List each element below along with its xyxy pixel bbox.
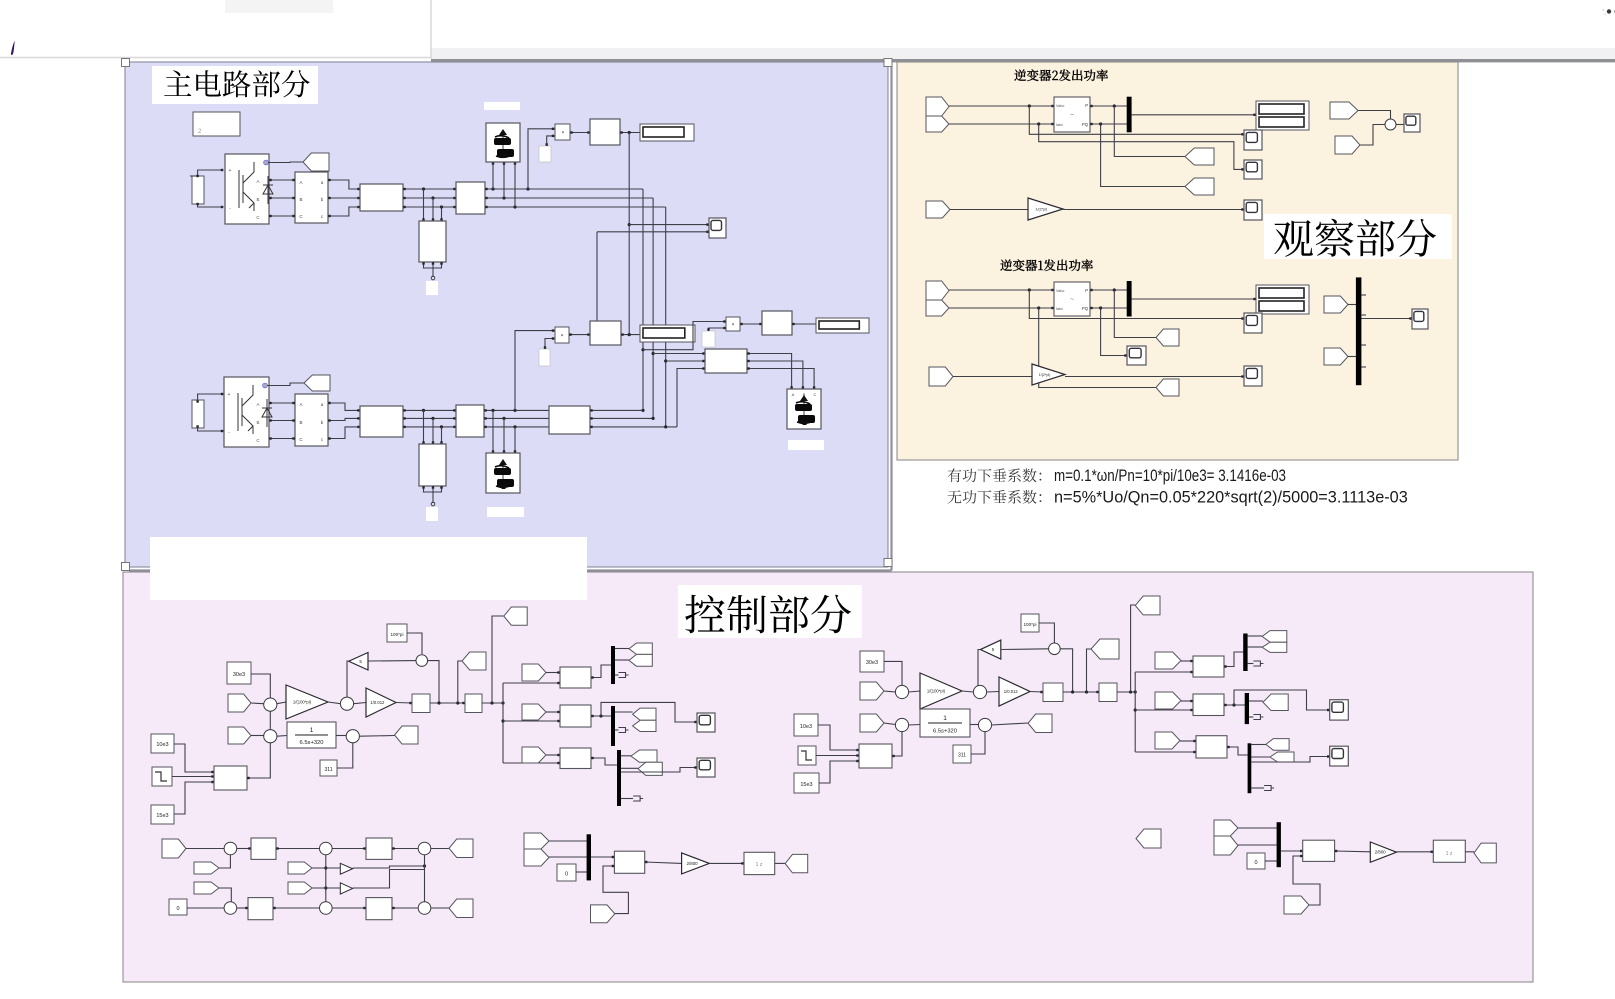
load block L2 bbox=[486, 123, 520, 162]
wire BB1 to sum D2 bbox=[276, 848, 320, 850]
from tag phase cR bbox=[1155, 732, 1180, 749]
svg-text:6.5s+320: 6.5s+320 bbox=[299, 740, 323, 746]
wire 100piR to product R3 bbox=[1039, 623, 1054, 643]
stub m3R to terminator bbox=[1251, 787, 1264, 789]
sum circle D4 bbox=[224, 902, 237, 915]
scope SC1a bbox=[1244, 313, 1262, 333]
svg-text:Iabc: Iabc bbox=[1056, 307, 1063, 311]
wire P tap to goto tag bbox=[1114, 106, 1185, 157]
svg-text:~: ~ bbox=[1070, 113, 1074, 119]
wire tag to product P1 bbox=[547, 136, 555, 146]
wire bus tap to product P2 bbox=[515, 331, 555, 411]
goto tag Q1 bbox=[1156, 379, 1179, 396]
function block b1R bbox=[1193, 656, 1224, 677]
wire riser to load L2 a bbox=[492, 162, 494, 189]
wire 30e3 to sum A1 bbox=[251, 674, 270, 698]
svg-text:2/800: 2/800 bbox=[687, 861, 699, 866]
main line after SQ2 bbox=[482, 702, 503, 704]
stub m3 to goto c2 bbox=[621, 767, 638, 769]
wire Z1R to mux MBR bbox=[1265, 860, 1277, 862]
three-phase V-I measurement B1 bbox=[295, 172, 328, 223]
wire PmeasR to sum R1 bbox=[884, 691, 896, 692]
product circle R3 bbox=[1049, 643, 1061, 655]
title box 控制部分 bbox=[678, 585, 862, 638]
wire P3 to F3 bbox=[740, 323, 762, 325]
svg-text:B: B bbox=[256, 420, 259, 425]
wire PWMR to gain 2/800R bbox=[1335, 850, 1371, 853]
goto tag a2 bbox=[629, 654, 652, 666]
wire qa to sum D1 bottom bbox=[219, 855, 230, 868]
wire loop to scope scl2 bbox=[601, 702, 697, 722]
wire g1a to mux M3 bbox=[1348, 304, 1356, 306]
svg-text:+: + bbox=[229, 168, 232, 174]
wire GB to sq SQ1 bbox=[396, 702, 412, 705]
wire F2 to display D2 bbox=[621, 334, 640, 336]
load block L4 bbox=[486, 453, 520, 493]
wire B3b to RLC2 bbox=[328, 418, 360, 420]
sum block SBR bbox=[859, 744, 892, 768]
wire MBR to block PWMR bbox=[1281, 850, 1303, 852]
from tag f2b bbox=[1335, 136, 1360, 154]
from tag g1a bbox=[1324, 296, 1348, 313]
from tag QmeasR bbox=[860, 714, 884, 732]
svg-text:15e3: 15e3 bbox=[156, 813, 168, 819]
goto tag P2 bbox=[1185, 148, 1214, 165]
wire f3R to b3R bbox=[1180, 740, 1196, 742]
wire 15e3R to SBR bbox=[819, 761, 859, 783]
mux bar MB bbox=[587, 834, 591, 880]
goto tag PWMoutR bbox=[1474, 843, 1496, 863]
stub to branch1 lower bbox=[503, 682, 560, 684]
function block b2R bbox=[1193, 694, 1224, 716]
wire GA to sum A2 bbox=[328, 702, 341, 704]
wire carrier to PWM bbox=[603, 866, 628, 914]
wire 15e3 to sum SB bbox=[174, 782, 214, 814]
wire tri5R to sum R2 top bbox=[978, 650, 980, 686]
wire b3 to mux m3 bbox=[591, 758, 617, 765]
transfer fcn 1/(6.5s+320) bbox=[287, 722, 336, 748]
gain gx1 bbox=[340, 863, 352, 874]
wire f1 to b1 bbox=[546, 672, 560, 674]
wire RLC1 phase c bbox=[403, 206, 456, 208]
wire 311R to sum R5 bbox=[971, 732, 985, 755]
wire tap A to transformer T1 bbox=[423, 189, 425, 221]
wire RLC2 phase b bbox=[403, 417, 456, 419]
wire riser to goto wt bbox=[458, 661, 462, 703]
wire tap to transformer T2 c bbox=[441, 427, 443, 444]
from tag m1 bbox=[524, 833, 549, 849]
goto tag b2a bbox=[633, 708, 656, 720]
droop coeff line1 chinese bbox=[948, 468, 1042, 482]
wire vertical link c bbox=[665, 207, 667, 427]
wire bridge g to pulse tag bbox=[268, 161, 303, 164]
wire B3a to RLC2 bbox=[328, 403, 360, 410]
stub m2R to terminator bbox=[1249, 716, 1253, 718]
wire gainR to delayR bbox=[1397, 851, 1434, 853]
wire riser to goto wtR bbox=[1087, 649, 1092, 692]
wire riser to load L2 b bbox=[503, 162, 505, 198]
wire m3R to scope SCR3 bbox=[1251, 757, 1329, 763]
delay block z1 bbox=[744, 852, 775, 874]
title box 观察部分 bbox=[1264, 214, 1452, 259]
scope SCR2 bbox=[1330, 700, 1349, 720]
stub m3R to goto c1R bbox=[1251, 744, 1266, 746]
demux bar m3 bbox=[617, 750, 621, 806]
wire b1 to mux m1 bbox=[591, 665, 611, 678]
wire f2 to b2 bbox=[546, 711, 560, 713]
goto tag c3b bbox=[638, 762, 662, 775]
svg-text:0: 0 bbox=[565, 872, 568, 878]
svg-text:B: B bbox=[299, 420, 302, 425]
svg-text:10e3: 10e3 bbox=[800, 724, 812, 730]
demux bar m1 bbox=[611, 646, 615, 684]
scope SCL2 bbox=[697, 713, 715, 732]
from tag phase c bbox=[522, 747, 546, 763]
scope SC2b bbox=[1244, 160, 1262, 179]
wire E2- to bridge2 bbox=[198, 428, 224, 431]
stub m1 to terminator bbox=[615, 674, 619, 676]
terminator tm2R bbox=[1253, 715, 1263, 720]
wire tap C to transformer T1 bbox=[441, 207, 443, 221]
wire B4 out b bbox=[484, 417, 549, 419]
stub m3 to terminator bbox=[621, 798, 633, 800]
from tag Iabc1 bbox=[926, 300, 949, 316]
svg-text:2/800: 2/800 bbox=[1375, 850, 1387, 855]
from tag m1R bbox=[1214, 820, 1238, 836]
scope riser from D1 junction bbox=[628, 133, 630, 335]
control region (pink) bbox=[123, 572, 1533, 982]
stub m2R to goto b2aR bbox=[1249, 700, 1263, 702]
constant 311 R bbox=[953, 745, 971, 763]
scope SC2c bbox=[1244, 200, 1262, 220]
svg-text:A: A bbox=[256, 179, 259, 184]
sum circle A4 bbox=[264, 730, 277, 743]
series RLC branch L1 bbox=[360, 184, 403, 211]
wire GRB to SQ1R bbox=[1030, 691, 1043, 694]
function block b3R bbox=[1196, 736, 1227, 758]
svg-text:PQ: PQ bbox=[1082, 306, 1089, 311]
display D1 bbox=[640, 124, 694, 141]
wire tap to transformer T2 a bbox=[423, 410, 425, 444]
wire q4 to gain gx2 bbox=[312, 887, 340, 889]
sum circle A2 bbox=[340, 697, 353, 710]
wire A3 to tri5 bbox=[368, 660, 416, 662]
goto tag b2aR bbox=[1263, 694, 1288, 711]
wire R2 to gain GRB bbox=[987, 691, 999, 694]
wire bridge2 C to B3 bbox=[269, 438, 295, 440]
from tag Iabc2 bbox=[926, 116, 949, 132]
goto tag a2R bbox=[1262, 642, 1287, 652]
wire Iabc2 tap bend bbox=[1039, 124, 1244, 169]
wire g1b to mux M3 bbox=[1348, 356, 1356, 358]
main line SQ1 to SQ2 bbox=[430, 702, 465, 704]
DC source E1 bbox=[192, 176, 204, 204]
sum circle D5 bbox=[320, 902, 333, 915]
top toolbar dark grey line bbox=[431, 59, 1615, 62]
goto tag wtR bbox=[1091, 639, 1119, 659]
svg-text:C: C bbox=[814, 392, 817, 397]
scope SC1b bbox=[1127, 346, 1146, 365]
wire PQ2 Q out bbox=[1090, 123, 1127, 125]
from tag q4 bbox=[288, 882, 312, 894]
scope SC1c bbox=[1244, 366, 1262, 386]
wire b3R to mux m3R bbox=[1227, 747, 1248, 755]
wire RLC1 phase a bbox=[403, 188, 456, 190]
wire B1c to RLC1 bbox=[328, 207, 360, 216]
wire B1b to RLC1 bbox=[328, 197, 360, 199]
wire D4 to block BB3 bbox=[237, 907, 248, 909]
wire GRA to sum R2 bbox=[962, 691, 974, 692]
wire delayR to outR bbox=[1465, 851, 1474, 853]
wire m1R to mux MBR bbox=[1238, 827, 1277, 829]
gain 2/800 bbox=[682, 853, 710, 874]
wire BB3 to sum D5 bbox=[273, 907, 320, 909]
wire B5 to load L6 c bbox=[747, 369, 814, 390]
IGBT bridge U1 bbox=[225, 154, 269, 224]
block BB2 bbox=[366, 838, 392, 859]
constant zero Z1R bbox=[1247, 853, 1265, 869]
DC source E2 bbox=[192, 400, 204, 428]
goto tag wt bbox=[462, 652, 486, 670]
wire M3 to scope SC1d bbox=[1361, 318, 1412, 320]
wire v5 tap to B5 bbox=[666, 360, 705, 362]
measurement block B4 bbox=[456, 405, 484, 437]
wire R5 to out tag R bbox=[992, 723, 1028, 725]
block BB4 bbox=[366, 898, 392, 920]
step block bbox=[152, 767, 172, 786]
svg-text:1/(2*pi): 1/(2*pi) bbox=[1036, 207, 1048, 211]
svg-text:n=5%*Uo/Qn=0.05*220*sqrt(2)/50: n=5%*Uo/Qn=0.05*220*sqrt(2)/5000=3.1113e… bbox=[1054, 489, 1408, 507]
stub m1 to goto a2 bbox=[615, 659, 629, 661]
IGBT bridge U2 bbox=[224, 377, 269, 447]
mux M3 stubs bbox=[1361, 294, 1366, 296]
wire T2 secondary join bbox=[424, 486, 442, 492]
wire f2a to sum S1 bbox=[1358, 111, 1391, 120]
wire D2 to block BB2 bbox=[332, 848, 366, 850]
wire S1 to scope SC2d bbox=[1396, 124, 1404, 126]
wire SBR up to sums bbox=[892, 732, 902, 757]
stub m3R to goto c2R bbox=[1251, 756, 1270, 758]
terminator tm3 bbox=[633, 796, 643, 801]
svg-text:10e3: 10e3 bbox=[156, 742, 168, 748]
wire m3 to scope SCL3 bbox=[621, 768, 697, 773]
wire B2 out a bbox=[485, 188, 556, 190]
wire B5 to load L6 a bbox=[747, 354, 792, 390]
top toolbar strip light grey bbox=[431, 48, 1615, 59]
wire to scope SC1 in2 bbox=[597, 231, 709, 233]
wire b1R to mux m1R bbox=[1224, 652, 1243, 667]
gain 1/(2*pi) K1 bbox=[1028, 198, 1063, 220]
svg-text:P: P bbox=[1085, 288, 1088, 293]
wire vertical link a bbox=[642, 189, 644, 410]
PQ measurement block PQ2 bbox=[1054, 97, 1090, 132]
wire riser to load L2 c bbox=[514, 162, 516, 207]
wire b2R to mux m2R bbox=[1224, 704, 1245, 706]
sum circle D1 bbox=[224, 842, 237, 855]
sum circle R2 bbox=[973, 685, 986, 698]
sum circle A1 bbox=[264, 698, 277, 711]
wire RLC L5 up a bbox=[590, 409, 643, 411]
svg-text:A: A bbox=[299, 180, 302, 185]
from tag Vabc2 bbox=[926, 97, 949, 116]
wire v4 tap to B5 bbox=[653, 353, 705, 355]
wire tap to transformer T2 b bbox=[432, 418, 434, 444]
product block P3 bbox=[726, 317, 740, 331]
wire RLC L5 up b bbox=[590, 417, 653, 419]
wire B5 to load L6 b bbox=[747, 361, 803, 389]
gain 1/0.012 bbox=[366, 688, 396, 717]
wire Vabc1 to PQ1 bbox=[949, 289, 1054, 291]
display D3 bbox=[816, 318, 869, 333]
gain 2/800 R bbox=[1370, 842, 1396, 862]
square block SQ2 bbox=[465, 694, 482, 713]
label 逆变器2发出功率 bbox=[1014, 69, 1108, 81]
wire A1 to gain GA bbox=[277, 702, 286, 704]
wire loop to scope SCR2 bbox=[1234, 690, 1330, 710]
svg-text:Iabc: Iabc bbox=[1056, 123, 1063, 127]
svg-text:100*pi: 100*pi bbox=[1023, 622, 1036, 627]
sum circle R5 bbox=[978, 718, 991, 731]
wire B1a to RLC1 bbox=[328, 180, 360, 189]
goto tag out top R bbox=[1135, 596, 1160, 615]
svg-text:~: ~ bbox=[1070, 297, 1074, 303]
svg-text:1/(100*pi): 1/(100*pi) bbox=[293, 699, 312, 704]
mux bar M1 bbox=[1127, 97, 1132, 133]
from tag g1b bbox=[1324, 348, 1348, 365]
wire TFR to sum R5 bbox=[970, 724, 979, 726]
wire f3 to b3 bbox=[546, 754, 560, 756]
wire R3 to main line R bbox=[1060, 649, 1072, 692]
demux bar m2R bbox=[1245, 693, 1249, 724]
wire MB to block PWM bbox=[591, 856, 614, 858]
sum circle D3 bbox=[418, 842, 431, 855]
bridge g port marker bbox=[264, 160, 269, 165]
transformer block T2 bbox=[419, 444, 446, 486]
wire carrierR to PWMR bbox=[1293, 856, 1320, 905]
svg-text:1 z: 1 z bbox=[756, 862, 763, 868]
goto tag Uref bbox=[395, 726, 419, 744]
from tag f2a bbox=[1330, 102, 1358, 119]
wire bridge C to B1 bbox=[269, 215, 295, 217]
scope SC1d bbox=[1412, 309, 1428, 329]
empty annotation box bbox=[193, 112, 240, 136]
from tag m2 bbox=[524, 849, 549, 866]
mux bar MBR bbox=[1277, 822, 1281, 867]
wire B2 out c bbox=[485, 206, 556, 208]
black dot top-right edge bbox=[1614, 10, 1615, 13]
demux bar m3R bbox=[1248, 743, 1252, 793]
bridge2 g port marker bbox=[263, 383, 268, 388]
terminator tm1R bbox=[1253, 661, 1263, 666]
wire B3c to RLC2 bbox=[328, 427, 360, 439]
wire SB up to sums bbox=[247, 711, 270, 778]
block PWMR bbox=[1303, 840, 1335, 861]
svg-text:0: 0 bbox=[176, 906, 179, 912]
from tag PmeasR bbox=[860, 682, 884, 700]
svg-text:1: 1 bbox=[943, 715, 947, 722]
from tag m2R bbox=[1214, 836, 1238, 855]
scope SCR3 bbox=[1330, 746, 1349, 766]
wire riser to out tag bbox=[492, 616, 504, 703]
goto tag UrefR bbox=[1028, 714, 1052, 733]
svg-text:A: A bbox=[792, 392, 795, 397]
load block L2 label strip bbox=[484, 102, 520, 110]
distribution vertical bbox=[502, 683, 504, 763]
selection handle blue bottom-left bbox=[122, 563, 130, 571]
constant 100*pi bbox=[387, 624, 407, 642]
constant 10e3 bbox=[151, 734, 174, 753]
wire Q tap to goto tag bbox=[1101, 124, 1185, 187]
RMS block F2 bbox=[590, 321, 621, 345]
wire E1+ to bridge bbox=[190, 175, 198, 177]
wire M1 to display PD1 bbox=[1132, 114, 1256, 116]
wire b2 to mux m2 bbox=[591, 715, 611, 717]
svg-text:100*pi: 100*pi bbox=[390, 632, 403, 637]
PQ measurement block PQ1 bbox=[1054, 282, 1090, 316]
sum circle D6 bbox=[418, 902, 431, 915]
from tag phase bR bbox=[1155, 692, 1181, 709]
wire drop to load L4 a bbox=[492, 410, 494, 453]
wire bus a turn down v3 bbox=[556, 188, 643, 190]
terminator tm3R bbox=[1264, 786, 1274, 791]
goto tag a1R bbox=[1262, 631, 1287, 643]
wire A3 to main line bbox=[428, 661, 439, 703]
scope SC2d bbox=[1404, 114, 1420, 132]
svg-text:A: A bbox=[299, 402, 302, 407]
wire PQ1 P out bbox=[1090, 289, 1127, 291]
from tag carrier bbox=[591, 905, 615, 923]
terminator tm2 bbox=[619, 728, 629, 733]
signal tag box2 bbox=[539, 349, 550, 366]
svg-text:PQ: PQ bbox=[1082, 122, 1089, 127]
wire q3 to gain gx1 bbox=[312, 867, 340, 869]
svg-text:30e3: 30e3 bbox=[866, 660, 878, 666]
main line SQ1R to SQ2R bbox=[1063, 691, 1099, 693]
wire B4 out a bbox=[484, 409, 549, 411]
wire q2 to D4 bbox=[219, 888, 231, 902]
wire RLC L5 up c bbox=[590, 426, 677, 428]
series RLC branch L3 bbox=[360, 406, 403, 437]
wire TF to sum A5 bbox=[336, 735, 346, 737]
constant 30e3 bbox=[227, 662, 251, 684]
wire tap B to transformer T1 bbox=[432, 198, 434, 221]
wire Vabc2 to PQ2 bbox=[949, 105, 1054, 107]
measurement block B2 bbox=[456, 182, 485, 214]
selection handle blue top-right bbox=[884, 59, 892, 67]
three-phase V-I measurement B3 bbox=[295, 394, 328, 446]
svg-text:30e3: 30e3 bbox=[233, 672, 245, 678]
white overlay box bbox=[150, 537, 587, 600]
svg-text:1 z: 1 z bbox=[1446, 851, 1453, 857]
gain 1/0.012 R bbox=[999, 677, 1030, 706]
goto tag c3a bbox=[631, 750, 657, 762]
wire PWM to gain 2/800 bbox=[645, 862, 682, 863]
gain block 5 (reversed) bbox=[349, 653, 368, 671]
wire A5 to out tag bbox=[360, 735, 395, 738]
wire Z1 to mux MB bbox=[576, 871, 587, 873]
delay block z1R bbox=[1433, 840, 1465, 862]
wire M2 to display PD2 bbox=[1132, 298, 1256, 300]
demux bar m1R bbox=[1243, 634, 1247, 672]
from tag wn1 bbox=[929, 367, 953, 386]
display D2 bbox=[640, 325, 695, 342]
product block P1 bbox=[555, 124, 570, 140]
wire f2b to sum S1 bbox=[1360, 125, 1385, 146]
from tag ua bbox=[162, 839, 186, 858]
wire bridge A to B1 bbox=[269, 179, 295, 181]
wire gain to delay bbox=[709, 862, 744, 864]
wire Iabc1 tap to goto bbox=[1039, 308, 1156, 388]
